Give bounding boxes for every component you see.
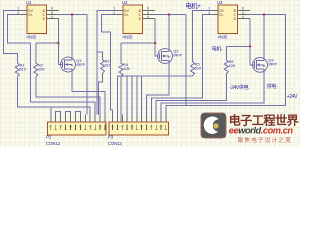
- bridge wires joining P2 pin pairs: [56, 112, 61, 115]
- svg-text:IRFP: IRFP: [268, 62, 277, 66]
- svg-text:P2: P2: [46, 135, 52, 140]
- wire U2 collector C row: [155, 14, 186, 16]
- svg-text:电机-: 电机-: [212, 45, 223, 52]
- pins of connector P2: [50, 115, 52, 123]
- pin 4 stub (E) of U3: [238, 18, 251, 20]
- wire gate node horizontal ch2: [121, 42, 155, 44]
- svg-text:4N35: 4N35: [218, 35, 229, 40]
- svg-text:4N35: 4N35: [27, 35, 38, 40]
- junction dot ch3 gate node: [249, 45, 251, 47]
- svg-text:10K: 10K: [123, 67, 130, 71]
- resistor R1 510: [15, 63, 19, 77]
- wire gate node horizontal ch1: [36, 42, 59, 44]
- wire R4 bottom to connector P3 pin 3: [120, 77, 122, 122]
- wire DI3- from U3 pin2 to connector P3 pin 9: [151, 15, 212, 122]
- wire Q3 source to connector P3 pin 11: [161, 72, 264, 122]
- wire connector P3 pins 4-7 tied to R5 bottom net: [126, 76, 128, 122]
- svg-text:4N35: 4N35: [123, 35, 134, 40]
- svg-text:+24V: +24V: [287, 94, 299, 100]
- svg-text:DI-: DI-: [219, 13, 223, 17]
- transistor Q3 IRFP N-MOSFET: [253, 58, 268, 73]
- svg-text:U2: U2: [122, 0, 128, 5]
- pin 2 stub of U1: [22, 14, 28, 16]
- EEWorld logo square: [201, 113, 226, 138]
- svg-text:eeworld.com.cn: eeworld.com.cn: [229, 126, 294, 136]
- wire P2 pin 1 up to R1 rail: [50, 107, 52, 115]
- wire U2 emitter E down to gate node: [154, 19, 156, 44]
- pin 5 stub (C) of U1: [47, 14, 60, 16]
- svg-text:-24V供电: -24V供电: [230, 84, 249, 91]
- pin 4 stub (E) of U1: [47, 18, 60, 20]
- svg-text:CON12: CON12: [46, 141, 61, 146]
- wire R2 bottom rail to connector P2 pin 11: [36, 77, 100, 115]
- svg-text:P3: P3: [108, 135, 114, 140]
- pin 2 stub of U3: [213, 14, 219, 16]
- wire R6 bottom to connector P3 pin 10: [156, 74, 226, 122]
- junction dot ch2 gate node: [154, 42, 156, 44]
- junction dot ch2 collector row: [168, 13, 170, 15]
- transistor Q2 IRFP N-MOSFET: [158, 49, 173, 64]
- wire Q1 source to connector P2 pin 12: [72, 72, 105, 115]
- pin 6 stub (B) of U3: [238, 10, 251, 12]
- wire U3 collector C row: [250, 14, 285, 16]
- wire collector rail down to connector P2 pin 8: [86, 15, 88, 115]
- wire R6 top to gate node: [225, 46, 227, 60]
- EEWorld logo gold dot: [213, 123, 218, 128]
- resistor R2 10K: [34, 63, 38, 77]
- wire gate node down to Q2 gate: [155, 43, 159, 56]
- connector P3 CON12 body: [109, 122, 168, 135]
- svg-text:IRFP: IRFP: [173, 54, 182, 58]
- transistor Q1 IRFP N-MOSFET: [61, 57, 76, 72]
- wire R1 bottom rail to connector P2 pin 9: [17, 77, 90, 115]
- resistor R5 510: [191, 62, 195, 76]
- wire gate node down to Q3 gate: [250, 46, 254, 65]
- svg-text:聚焦电子设计之美: 聚焦电子设计之美: [238, 136, 292, 144]
- EEWorld logo crescent: [204, 117, 221, 134]
- wire gate node down to Q1 gate: [58, 43, 62, 64]
- pin 1 stub of U2: [118, 10, 124, 12]
- resistor R3 510: [101, 59, 105, 73]
- pin 5 stub (C) of U3: [238, 14, 251, 16]
- svg-text:CON12: CON12: [108, 141, 123, 146]
- wire DI2- from U2 pin2 to connector P3 pin 1: [102, 15, 118, 122]
- wire branch from DI2+ to R3: [97, 52, 103, 59]
- pin 6 stub (B) of U2: [143, 10, 156, 12]
- wire +24V rail from collector row to connector P3 pin 12: [166, 15, 286, 122]
- junction dot ch3 collector row: [263, 13, 265, 15]
- svg-text:DI-: DI-: [124, 13, 128, 17]
- svg-text:DI-: DI-: [28, 13, 32, 17]
- wire Q2 drain up to collector row: [168, 15, 170, 49]
- svg-text:U1: U1: [26, 0, 32, 5]
- junction dot ch1 collector row: [71, 13, 73, 15]
- wire Q1 drain up to collector row: [71, 15, 73, 58]
- svg-text:电机+: 电机+: [185, 1, 201, 10]
- opto-coupler U1 4N35 body: [27, 5, 47, 34]
- pins of connector P3: [112, 115, 114, 123]
- resistor R4 10K: [119, 63, 123, 77]
- svg-text:10K: 10K: [38, 68, 45, 72]
- junction dot ch1 gate node: [57, 42, 59, 44]
- pin 4 stub (E) of U2: [143, 18, 156, 20]
- pin name marks inside P2: [50, 125, 107, 131]
- wire R4 top to gate node: [120, 43, 122, 63]
- pin name marks inside P3: [111, 125, 167, 131]
- wire Q3 drain up to collector row: [263, 15, 265, 58]
- svg-text:10K: 10K: [229, 64, 236, 68]
- resistor R6 10K: [224, 60, 228, 74]
- wire U1 emitter E down to gate node: [57, 19, 59, 44]
- pin 1 stub of U1: [22, 10, 28, 12]
- svg-text:U3: U3: [217, 0, 223, 5]
- wire ch2 collector rail down to +24V rail: [185, 15, 187, 106]
- svg-text:IRFP: IRFP: [76, 63, 85, 67]
- pin 2 stub of U2: [118, 14, 124, 16]
- opto-coupler U2 4N35 body: [123, 5, 143, 34]
- wire R2 top to gate node: [35, 43, 37, 63]
- wire U3 emitter E down to gate node: [249, 19, 251, 47]
- opto-coupler U3 4N35 body: [218, 5, 238, 34]
- schematic sheet background: [0, 0, 300, 147]
- svg-text:4: 4: [51, 15, 53, 19]
- wire Q2 source to connector P3 pin 8: [147, 63, 170, 122]
- pin 5 stub (C) of U2: [143, 14, 156, 16]
- svg-text:供电-: 供电-: [267, 83, 278, 90]
- wire R5 bottom long horizontal to connector P3 pin 2: [117, 76, 192, 122]
- pin 6 stub (B) of U1: [47, 10, 60, 12]
- wire R3 bottom jog down to connector: [99, 74, 103, 115]
- connector P2 CON12 body: [47, 122, 106, 135]
- svg-text:510: 510: [195, 66, 201, 70]
- wire DI3+ from U3 pin1 down to R5: [193, 11, 213, 62]
- svg-text:4: 4: [242, 15, 244, 19]
- wire DI1- from U1 pin2 down to connector P2 pin 10: [8, 15, 96, 115]
- svg-text:4: 4: [147, 15, 149, 19]
- wire DI1+ from U1 pin1 down-left to R1: [4, 11, 22, 64]
- wire gate node horizontal ch3: [226, 45, 250, 47]
- wire DI2+ from U2 pin1 straight down: [97, 11, 118, 115]
- pin 1 stub of U3: [213, 10, 219, 12]
- svg-text:510: 510: [20, 68, 26, 72]
- wire U1 collector C row to +24V drop: [58, 14, 87, 16]
